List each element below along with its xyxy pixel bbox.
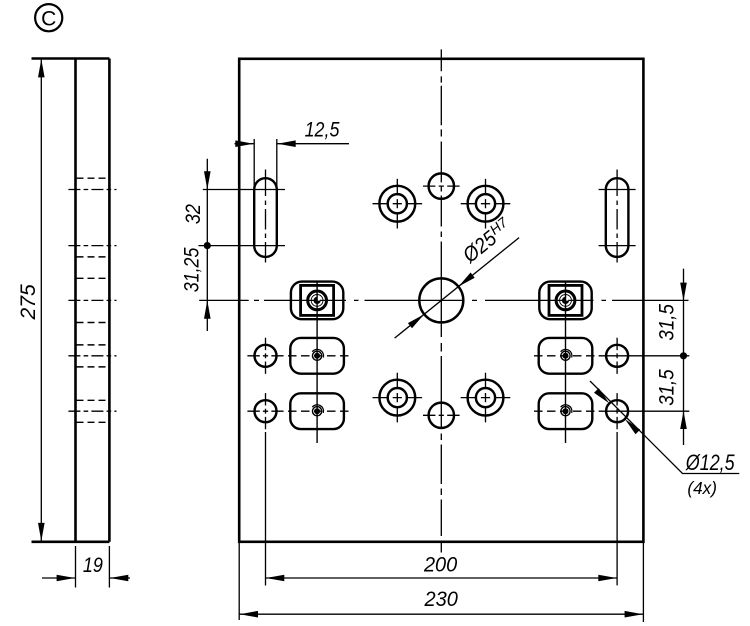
dimension 200: left arrow — [266, 575, 284, 582]
dimension 19: right arrow — [110, 575, 128, 582]
dimension 19: dim line tails — [42, 577, 130, 579]
side view hidden line: center bore top edge — [77, 277, 109, 279]
side view hidden line: slot top edge — [77, 177, 109, 179]
counterbored hole top-right: outer circle — [468, 186, 504, 222]
svg-text:31,25: 31,25 — [181, 247, 204, 292]
leader O25H7: lower arrow — [408, 314, 424, 328]
side view outline — [32, 59, 110, 542]
counterbored hole bottom-right: inner circle — [476, 388, 495, 407]
clamp nut left: hex socket — [314, 297, 321, 304]
pocket right row2: set screw washer arc — [561, 405, 572, 413]
side view centerline: row1 axis — [68, 355, 116, 357]
pocket right row1: set screw washer arc — [561, 349, 572, 357]
dimension 230: left arrow — [240, 611, 258, 618]
side view hidden line: row2 hole bottom edge — [77, 421, 109, 423]
center axis hole upper — [429, 173, 454, 198]
left column vertical feature line — [316, 281, 318, 443]
pocket left row2: set screw ring — [313, 407, 322, 416]
pocket right row1: rounded rectangle — [539, 338, 593, 374]
dimension 12,5: dim line tails — [235, 143, 350, 145]
svg-text:12,5: 12,5 — [305, 118, 340, 141]
dimension 275: dim line — [40, 59, 42, 542]
svg-text:275: 275 — [17, 284, 40, 321]
slot right arc-center ticks — [599, 189, 636, 191]
row2 left: hole centerline + dashed pocket line — [247, 410, 283, 412]
pocket left row1: rounded rectangle — [290, 338, 344, 374]
view label C: balloon circle — [35, 4, 62, 31]
slot left vertical centerline — [265, 170, 267, 263]
pocket left row1: set screw ring — [313, 351, 322, 360]
dimension 275: top arrow — [38, 59, 45, 77]
side view centerline: main axis — [68, 299, 116, 301]
svg-text:C: C — [41, 7, 56, 30]
dimension 230: extension lines — [238, 542, 240, 620]
row1 left: hole centerline + dashed pocket line — [247, 355, 283, 357]
hole O12,5 right row2: vertical centerline — [616, 393, 618, 429]
row2 right: dashed pocket line + extension to dimension — [534, 410, 595, 412]
clamp nut left: screw head inner circle — [311, 295, 323, 307]
side view hidden line: row1 hole top edge — [77, 344, 109, 346]
svg-text:19: 19 — [83, 554, 103, 577]
dimension 275: bottom arrow — [38, 523, 45, 541]
svg-text:Ø12,5: Ø12,5 — [685, 450, 735, 475]
side view centerline: slot lower arc — [68, 245, 116, 247]
dimension 32/31,25: dim line — [206, 159, 208, 331]
main plate outline — [239, 59, 643, 542]
pocket right row2: set screw ring — [561, 407, 570, 416]
counterbored hole bottom-right: outer circle — [468, 380, 504, 416]
side view hidden line: row2 hole top edge — [77, 399, 109, 401]
right column vertical feature line — [565, 281, 567, 443]
main vertical centerline — [440, 49, 442, 552]
leader O25H7: upper arrow — [458, 273, 474, 287]
dimension 32: extension line at slot upper arc center — [203, 189, 285, 191]
leader O12,5: lower arrow — [625, 419, 640, 434]
leader O25H7: text — [457, 213, 517, 268]
dimension 12,5: right arrow — [277, 140, 295, 147]
dimension 230: dim line — [239, 613, 643, 615]
counterbored hole bottom-left: centerline cross — [373, 397, 423, 399]
dimension 32/31,25: shared extension line at slot lower arc center — [198, 245, 285, 247]
counterbored hole top-left: inner circle — [388, 194, 407, 213]
row1 right: dashed pocket line + extension to dimension — [534, 355, 595, 357]
counterbored hole top-left: outer circle — [379, 186, 415, 222]
svg-text:31,5: 31,5 — [656, 369, 679, 406]
svg-text:200: 200 — [423, 554, 458, 577]
side view centerline: row2 axis — [68, 410, 116, 412]
pocket right row2: set screw core — [563, 408, 569, 414]
counterbored hole bottom-right: centerline cross — [461, 397, 511, 399]
clamp nut left: outer rounded body — [291, 282, 343, 320]
dimension 31,5 bottom: arrow at row2 — [680, 411, 687, 429]
clamp nut right: screw head inner circle — [560, 295, 572, 307]
clamp nut left: screw head ring — [308, 291, 327, 310]
side view hidden line: row1 hole bottom edge — [77, 366, 109, 368]
center axis hole upper: horizontal centerline — [423, 185, 460, 187]
counterbored hole bottom-left: outer circle — [379, 380, 415, 416]
leader O12,5: diagonal line through hole and underline — [590, 381, 739, 474]
dimension 200: right arrow — [598, 575, 616, 582]
dimension 32/31,25: shared dot — [204, 242, 211, 249]
pocket left row1: set screw core — [314, 353, 320, 359]
dimension 19: left arrow — [57, 575, 75, 582]
dimension 200: dim line — [266, 577, 618, 579]
dimension 19: extension lines — [75, 546, 77, 588]
side view hidden line: center bore bottom edge — [77, 322, 109, 324]
dimension 12,5: extension lines — [253, 139, 255, 189]
center axis hole lower — [429, 403, 454, 428]
side view hidden line: slot bottom edge — [77, 256, 109, 258]
pocket right row1: set screw ring — [561, 351, 570, 360]
dimension 200: extension lines — [265, 432, 267, 586]
counterbored hole top-right: inner circle — [476, 194, 495, 213]
clamp nut right: outer rounded body — [539, 282, 591, 320]
counterbored hole top-right: centerline cross — [461, 203, 511, 205]
pocket left row2: set screw washer arc — [312, 405, 323, 413]
svg-text:(4x): (4x) — [687, 478, 717, 498]
main horizontal centerline — [199, 299, 688, 301]
hole O12,5 left row1: vertical centerline — [265, 338, 267, 374]
counterbored hole bottom-left: inner circle — [388, 388, 407, 407]
svg-text:230: 230 — [424, 588, 459, 611]
dimension 31,25: bottom arrow — [204, 300, 211, 318]
leader O25H7: line through hole — [395, 238, 519, 339]
clamp nut left: inner square — [301, 285, 334, 315]
center axis hole lower: horizontal centerline — [423, 414, 460, 416]
dimension 230: right arrow — [625, 611, 643, 618]
dimension 32: top arrow — [204, 171, 211, 189]
svg-text:31,5: 31,5 — [656, 304, 679, 341]
dimension 31,5 top: arrow at main axis — [680, 283, 687, 301]
hole O12,5 left row2: circle — [255, 400, 277, 422]
center bore O25H7 circle — [419, 278, 463, 322]
hole O12,5 right row1: circle — [606, 345, 628, 367]
counterbored hole top-left: centerline cross — [373, 203, 423, 205]
hole O12,5 right row2: circle — [606, 400, 628, 422]
pocket right row2: rounded rectangle — [539, 393, 593, 429]
slot right vertical centerline — [616, 170, 618, 263]
svg-text:32: 32 — [182, 204, 205, 224]
dimension 12,5: left arrow — [235, 140, 253, 147]
hole O12,5 left row2: vertical centerline — [265, 393, 267, 429]
slot (obround) left — [254, 178, 277, 257]
clamp nut right: hex socket — [562, 297, 569, 304]
pocket right row1: set screw core — [563, 353, 569, 359]
hole O12,5 right row1: vertical centerline — [616, 338, 618, 374]
hole O12,5 left row1: circle — [255, 345, 277, 367]
clamp nut right: screw head ring — [556, 291, 575, 310]
pocket left row2: set screw core — [314, 408, 320, 414]
leader O12,5: upper arrow — [594, 388, 609, 403]
side view centerline: slot upper arc — [68, 189, 116, 191]
dimension 31,5 pair: dim line — [683, 269, 685, 445]
pocket left row2: rounded rectangle — [290, 393, 344, 429]
dimension 31,5 shared dot at row1 — [680, 352, 687, 359]
slot (obround) right — [606, 178, 629, 257]
clamp nut right: inner square — [549, 285, 582, 315]
pocket left row1: set screw washer arc — [312, 349, 323, 357]
